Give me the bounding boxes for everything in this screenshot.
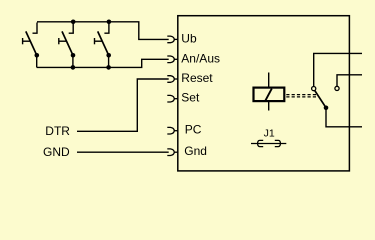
relay coil K1 diagonal <box>265 89 271 101</box>
IC box U1 <box>178 16 350 171</box>
pin 5 symbol (PC) <box>167 127 178 134</box>
pushbutton switch S2 <box>59 23 75 68</box>
svg-text:Ub: Ub <box>181 31 197 45</box>
wire NC terminal to right edge <box>314 53 362 86</box>
svg-text:Gnd: Gnd <box>184 144 207 158</box>
svg-text:Set: Set <box>181 91 200 105</box>
relay contact: NC terminal circle <box>312 87 316 91</box>
svg-text:Reset: Reset <box>181 71 213 85</box>
jumper J1 symbol line <box>251 143 286 145</box>
wire GND to pin Gnd <box>77 151 169 153</box>
wire top rail to pin Ub <box>37 22 169 40</box>
jumper J1 left bracket <box>258 140 264 146</box>
pin 6 symbol (Gnd) <box>167 149 178 156</box>
pushbutton switch S3 <box>95 23 111 68</box>
wire common contact to right edge <box>326 108 362 127</box>
svg-text:DTR: DTR <box>45 124 70 138</box>
junction bottom rail / S2 <box>71 65 76 70</box>
svg-text:GND: GND <box>43 145 70 159</box>
relay contact blade <box>315 91 326 108</box>
junction bottom rail / S3 <box>106 65 111 70</box>
relay coil K1 body <box>254 88 285 102</box>
pin 3 symbol (Reset) <box>167 76 178 83</box>
wire bottom rail to pin An/Aus <box>37 59 169 67</box>
pin 2 symbol (An/Aus) <box>167 56 178 63</box>
pushbutton switch S1 <box>23 23 39 68</box>
wire DTR to pin Reset <box>77 79 169 131</box>
relay contact common junction <box>324 106 329 111</box>
relay coil K1 bottom stub <box>268 102 270 111</box>
junction top rail / S2 <box>71 20 76 25</box>
pin 1 symbol (Ub) <box>167 36 178 43</box>
mechanical linkage dashed (lower row) <box>286 96 316 98</box>
svg-text:PC: PC <box>185 123 202 137</box>
svg-text:J1: J1 <box>264 128 275 140</box>
relay contact: NO terminal circle <box>335 86 339 90</box>
relay coil K1 top stub <box>268 73 270 88</box>
jumper J1 right bracket <box>275 140 281 146</box>
pin 4 symbol (Set) <box>167 95 178 102</box>
svg-text:An/Aus: An/Aus <box>181 51 220 65</box>
wire NO terminal to right edge <box>337 75 362 86</box>
junction top rail / S3 <box>107 20 112 25</box>
mechanical linkage dashed (upper row) <box>286 94 316 96</box>
